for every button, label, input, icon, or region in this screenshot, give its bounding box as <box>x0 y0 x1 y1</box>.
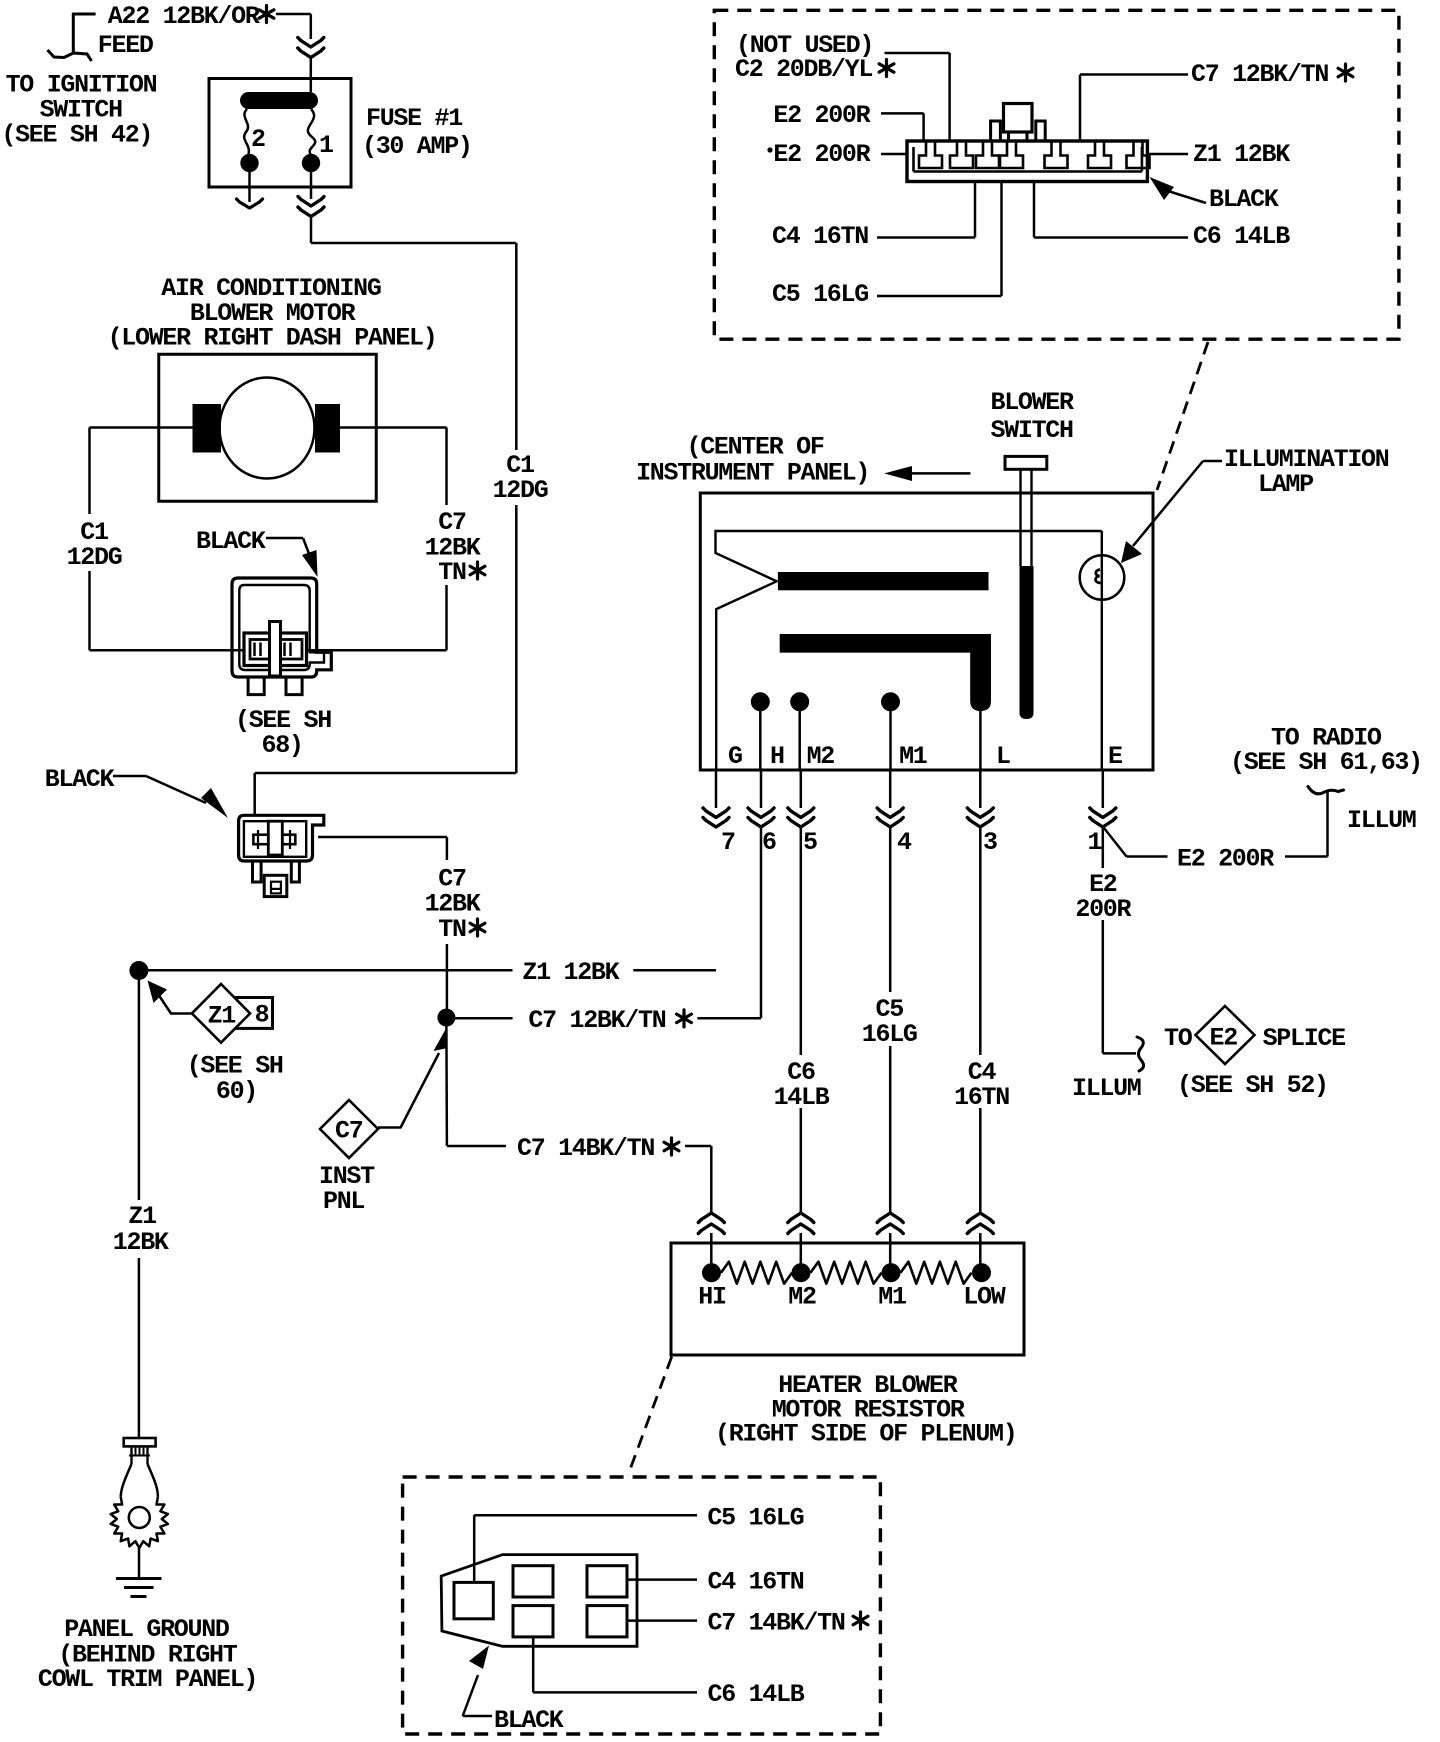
wire through connector <box>90 649 245 652</box>
svg-text:(SEE SH 42): (SEE SH 42) <box>1 121 152 150</box>
svg-text:16LG: 16LG <box>862 1020 917 1049</box>
svg-text:FUSE #1: FUSE #1 <box>366 104 462 133</box>
svg-text:5: 5 <box>803 828 817 857</box>
inline connector chevrons to resistor <box>877 1213 903 1223</box>
connector 2 internals <box>268 821 282 855</box>
svg-text:C5 16LG: C5 16LG <box>772 280 868 309</box>
ring terminal top bar <box>124 1438 156 1446</box>
blower motor M1 box <box>159 354 377 501</box>
junction dot C7 <box>437 1009 455 1027</box>
dashed leader resistor to connector detail <box>628 1357 672 1475</box>
leader C5 16LG <box>877 295 1002 298</box>
wire motor right C7 <box>340 426 447 429</box>
svg-text:M1: M1 <box>899 742 927 771</box>
splice symbol Z1 diamond with 8 <box>237 998 273 1029</box>
inline connector chevrons pin 3 <box>967 808 993 818</box>
ring terminal eyelet with teeth <box>121 1464 132 1497</box>
inline connector chevrons pin 4 <box>877 808 903 818</box>
svg-text:68): 68) <box>262 731 303 760</box>
wire connector2 to C7 label <box>318 836 447 839</box>
wire E down <box>1102 828 1105 868</box>
svg-text:4: 4 <box>897 828 912 857</box>
svg-text:BLACK: BLACK <box>45 765 115 794</box>
svg-text:1: 1 <box>319 131 333 160</box>
svg-text:PNL: PNL <box>323 1187 364 1216</box>
svg-text:C6 14LB: C6 14LB <box>1193 222 1290 251</box>
heater blower motor resistor box <box>671 1243 1024 1355</box>
svg-text:16TN: 16TN <box>954 1083 1009 1112</box>
svg-text:C4 16TN: C4 16TN <box>708 1567 804 1596</box>
svg-text:(SEE SH 61,63): (SEE SH 61,63) <box>1230 748 1422 777</box>
svg-text:C7 14BK/TN: C7 14BK/TN <box>708 1608 845 1637</box>
svg-text:14LB: 14LB <box>774 1083 830 1112</box>
arrow BLACK to connector shell <box>1168 191 1206 203</box>
asterisk after TN <box>470 562 485 579</box>
inline connector chevrons pin 1 <box>1090 808 1116 818</box>
leader C7 top <box>1080 73 1188 76</box>
wire C7 12BK/TN run <box>446 1017 512 1020</box>
svg-text:E2: E2 <box>1210 1024 1238 1053</box>
wire Z1 down from junction <box>138 979 141 1200</box>
svg-text:LAMP: LAMP <box>1258 470 1313 499</box>
leader E2 200R second <box>881 153 906 156</box>
connector 2 feet and tab <box>253 861 262 882</box>
inline connector chevrons to resistor <box>967 1213 993 1223</box>
svg-text:1: 1 <box>1088 828 1102 857</box>
resistor element M1-LOW <box>901 1262 972 1284</box>
inline connector chevrons pin 6 <box>748 808 774 818</box>
blower motor right brush <box>315 404 340 453</box>
svg-text:INSTRUMENT PANEL): INSTRUMENT PANEL) <box>636 459 869 488</box>
asterisk after A22 12BK/OR <box>259 6 274 23</box>
resistor terminal dot LOW <box>972 1263 991 1282</box>
blower switch shaft <box>1019 469 1021 566</box>
connector top lock tab <box>1004 104 1033 133</box>
resistor element HI-M2 <box>721 1262 792 1284</box>
ring terminal neck <box>130 1446 132 1464</box>
connector cavity 2 <box>587 1566 627 1597</box>
4-way connector body <box>441 1555 637 1647</box>
svg-text:6: 6 <box>762 828 776 857</box>
inline connector chevrons pin 5 <box>788 808 814 818</box>
arrow BLACK to connector <box>266 537 303 540</box>
svg-text:200R: 200R <box>1075 895 1131 924</box>
arrow pointing left at instrument panel <box>909 472 970 475</box>
svg-text:M2: M2 <box>807 742 835 771</box>
svg-text:TN: TN <box>438 915 466 944</box>
svg-text:7: 7 <box>721 828 735 857</box>
svg-text:M2: M2 <box>788 1283 816 1312</box>
wires into resistor box <box>710 1233 713 1273</box>
svg-text:8: 8 <box>255 1001 269 1030</box>
inline connector chevrons at fuse input <box>298 38 324 48</box>
asterisk C7 12BK/TN mid <box>677 1010 692 1027</box>
leader NOT USED to connector <box>885 52 950 55</box>
illumination lamp circle <box>1080 555 1125 600</box>
leader C7 14BK/TN bottom <box>627 1619 697 1622</box>
fuse element bar <box>240 92 318 109</box>
svg-text:(30 AMP): (30 AMP) <box>362 132 472 161</box>
switch E inner line <box>1101 531 1103 770</box>
svg-text:ILLUM: ILLUM <box>1072 1074 1141 1103</box>
blower motor left brush <box>193 404 222 453</box>
wire 5 down <box>800 828 803 1055</box>
svg-text:12DG: 12DG <box>67 543 122 572</box>
svg-text:E: E <box>1108 742 1122 771</box>
connector detail box (dashed) <box>714 10 1399 339</box>
splice symbol C7 diamond <box>320 1100 378 1158</box>
svg-text:12BK: 12BK <box>113 1228 169 1257</box>
asterisk C7 bottom <box>853 1612 868 1629</box>
leader Z1 top <box>1147 153 1188 156</box>
inline connector chevrons pin 7 <box>703 808 729 818</box>
asterisk C7 14BK/TN <box>664 1138 679 1155</box>
connector feet <box>248 677 264 695</box>
svg-text:SWITCH: SWITCH <box>991 416 1074 445</box>
arrow C7 diamond to junction <box>378 1053 439 1128</box>
resistor connector detail box (dashed) <box>403 1477 881 1734</box>
wire eyelet to ground <box>138 1548 141 1579</box>
radio bracket squiggle <box>1308 787 1344 794</box>
fuse pin 1 terminal dot <box>302 154 320 172</box>
wire C1 12DG continues <box>515 505 518 773</box>
leader E2 200R first <box>881 112 924 115</box>
svg-text:3: 3 <box>983 828 997 857</box>
blower motor armature circle <box>220 378 315 479</box>
svg-text:E2 200R: E2 200R <box>773 140 870 169</box>
svg-text:(LOWER RIGHT DASH PANEL): (LOWER RIGHT DASH PANEL) <box>108 324 437 353</box>
dashed leader from connector detail box to switch <box>1157 342 1208 490</box>
svg-text:BLOWER: BLOWER <box>991 388 1075 417</box>
wire E2 to radio bracket <box>1285 855 1328 858</box>
resistor terminal dot M2 <box>792 1263 811 1282</box>
illumination lamp filament <box>1095 570 1100 584</box>
leader C5 16LG bottom <box>473 1515 476 1582</box>
wire C1 into connector <box>255 772 517 775</box>
arrow BLACK bottom <box>463 1715 492 1718</box>
splice symbol E2 diamond <box>1196 1006 1255 1064</box>
splice bracket squiggle <box>1137 1037 1144 1071</box>
resistor element M2-M1 <box>811 1262 882 1284</box>
connector cavity 1 <box>513 1566 553 1597</box>
asterisk C7 top box <box>1338 64 1353 81</box>
fuse element left squiggle <box>244 109 249 154</box>
svg-text:Z1 12BK: Z1 12BK <box>522 958 619 987</box>
inline connector chevrons to resistor <box>698 1213 724 1223</box>
wire from A22 to fuse <box>276 13 311 16</box>
svg-text:2: 2 <box>251 125 265 154</box>
switch contact bar lower L-shape <box>780 634 991 711</box>
wire Z1 to ground <box>138 1258 141 1438</box>
leader C4 16TN <box>877 236 975 239</box>
svg-text:H: H <box>770 742 784 771</box>
fuse pin 2 wire with arrow <box>248 172 251 202</box>
switch terminal dot M1 <box>881 692 900 711</box>
wire to junction <box>446 944 449 1009</box>
svg-text:LOW: LOW <box>963 1283 1005 1312</box>
resistor terminal dot M1 <box>882 1263 901 1282</box>
svg-text:(SEE SH 52): (SEE SH 52) <box>1177 1071 1328 1100</box>
svg-text:A22 12BK/OR: A22 12BK/OR <box>108 2 260 31</box>
svg-text:BLACK: BLACK <box>494 1706 564 1735</box>
blower switch box <box>700 493 1153 770</box>
asterisk C2 <box>879 60 894 77</box>
svg-text:BLACK: BLACK <box>196 527 266 556</box>
svg-text:SPLICE: SPLICE <box>1263 1024 1346 1053</box>
svg-text:C7 12BK/TN: C7 12BK/TN <box>528 1006 665 1035</box>
fuse pin 1 wire <box>310 172 313 199</box>
leader C4 16TN bottom <box>627 1578 697 1581</box>
wire Z1 run <box>139 969 513 972</box>
connector internal terminals <box>244 633 307 666</box>
svg-text:C4 16TN: C4 16TN <box>772 222 868 251</box>
wire motor left C1 12DG <box>90 426 193 429</box>
connector at blower motor (SEE SH 68) outline <box>232 578 331 677</box>
svg-text:12DG: 12DG <box>493 476 548 505</box>
switch terminal dot M2 <box>790 692 809 711</box>
leader C6 14LB bottom <box>532 1637 535 1693</box>
svg-text:M1: M1 <box>878 1283 906 1312</box>
svg-text:ILLUM: ILLUM <box>1347 806 1416 835</box>
asterisk after TN 2 <box>470 919 485 936</box>
wire destination bracket FEED symbol <box>48 14 96 58</box>
svg-text:C2 20DB/YL: C2 20DB/YL <box>735 55 872 84</box>
svg-text:C7 14BK/TN: C7 14BK/TN <box>517 1134 654 1163</box>
switch terminal dot H <box>751 692 770 711</box>
wire 3 down <box>979 828 982 1055</box>
svg-text:Z1 12BK: Z1 12BK <box>1193 140 1290 169</box>
arrow BLACK to splice connector <box>113 775 146 778</box>
leader C6 14LB <box>1034 236 1188 239</box>
ground symbol <box>116 1577 162 1580</box>
svg-text:60): 60) <box>216 1077 257 1106</box>
branch wire to E2 200R label <box>1104 828 1127 857</box>
svg-text:HI: HI <box>698 1283 726 1312</box>
connector 2 outline <box>239 815 324 861</box>
svg-text:(RIGHT SIDE OF PLENUM): (RIGHT SIDE OF PLENUM) <box>715 1420 1016 1449</box>
wire fuse to C1 12DG run <box>310 217 313 244</box>
fuse F1 box <box>209 79 351 188</box>
8-cavity connector body <box>907 141 1147 182</box>
svg-text:C6 14LB: C6 14LB <box>708 1680 805 1709</box>
fuse pin 2 terminal dot <box>240 154 258 172</box>
wire 4 down <box>889 828 892 992</box>
wire C7 14BK/TN run <box>445 1026 448 1146</box>
svg-text:Z1: Z1 <box>208 1002 236 1031</box>
connector cavity 3 <box>513 1606 553 1637</box>
inline connector chevrons to resistor <box>788 1213 814 1223</box>
fuse element right squiggle <box>308 109 315 155</box>
svg-text:Z1: Z1 <box>128 1202 156 1231</box>
resistor terminal dot HI <box>702 1263 721 1282</box>
svg-text:E2 200R: E2 200R <box>773 101 870 130</box>
connector cavity left <box>454 1582 493 1618</box>
svg-text:FEED: FEED <box>98 31 154 60</box>
wire into fuse box <box>310 58 313 93</box>
svg-text:BLACK: BLACK <box>1209 185 1279 214</box>
switch contact bar upper <box>778 572 989 590</box>
svg-text:C7: C7 <box>335 1117 363 1146</box>
blower switch knob handle <box>1005 456 1047 469</box>
junction dot Z1 <box>129 961 148 980</box>
svg-text:C5 16LG: C5 16LG <box>707 1503 803 1532</box>
switch terminal wires <box>759 702 762 770</box>
inline connector chevrons below fuse <box>298 197 324 207</box>
svg-text:TO: TO <box>1164 1024 1193 1053</box>
svg-text:L: L <box>996 742 1010 771</box>
connector cavity 4 <box>587 1606 627 1637</box>
arrow to illumination lamp <box>1203 460 1222 463</box>
svg-text:COWL TRIM PANEL): COWL TRIM PANEL) <box>38 1665 257 1694</box>
svg-text:TN: TN <box>438 558 466 587</box>
svg-text:(CENTER OF: (CENTER OF <box>687 432 824 461</box>
svg-text:E2 200R: E2 200R <box>1177 844 1274 873</box>
svg-text:C7 12BK/TN: C7 12BK/TN <box>1191 60 1328 89</box>
wires switch to chevrons <box>715 770 718 808</box>
svg-text:G: G <box>728 742 742 771</box>
arrow diamond to junction <box>158 994 192 1014</box>
switch inner contact rail and wiper G <box>716 531 1102 770</box>
